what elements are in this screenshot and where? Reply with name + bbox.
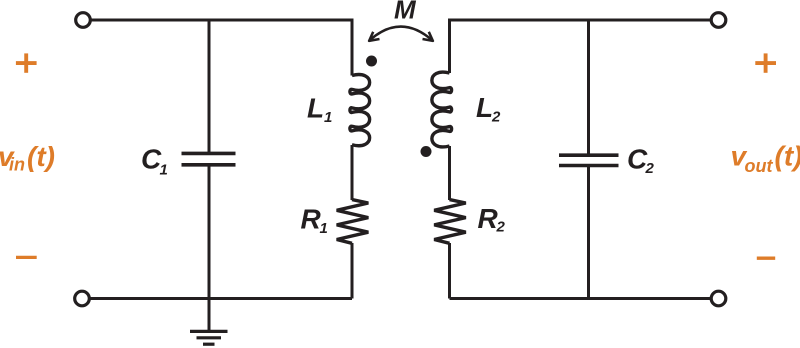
inductor L2 <box>432 72 452 147</box>
terminal: input bottom-left <box>75 291 90 306</box>
svg-text:in: in <box>9 154 25 174</box>
phase dot: L2 bottom <box>421 146 432 157</box>
svg-text:2: 2 <box>491 109 501 126</box>
label: v_out(t) <box>731 140 800 176</box>
terminal: output top-right <box>711 13 726 28</box>
wire: bottom-left rail <box>90 297 353 300</box>
phase dot: L1 top <box>366 56 377 67</box>
ground <box>190 331 228 344</box>
capacitor C2 <box>559 155 619 165</box>
svg-text:1: 1 <box>160 162 168 179</box>
wire: bottom-right rail <box>450 297 712 300</box>
wire: top-left rail from input terminal to L1 branch <box>91 20 353 76</box>
label L1 <box>307 93 332 126</box>
label R2 <box>478 203 506 236</box>
wire: C2 bottom branch <box>587 166 590 299</box>
svg-text:1: 1 <box>324 109 332 126</box>
terminal: output bottom-right <box>711 291 726 306</box>
wire: C2 top branch <box>587 20 590 155</box>
label L2 <box>476 92 501 125</box>
svg-text:1: 1 <box>320 220 328 237</box>
svg-text:R: R <box>478 203 499 234</box>
svg-text:(t): (t) <box>27 141 55 172</box>
inductor L1 <box>350 75 370 146</box>
label: minus sign input <box>16 256 37 259</box>
label: plus sign input <box>16 53 37 72</box>
wire: L2 to R2 connector <box>448 146 451 200</box>
wire: C1 top branch <box>208 20 211 153</box>
label: minus sign output <box>757 257 775 260</box>
label C2 <box>627 144 655 177</box>
resistor R2 <box>434 200 466 244</box>
mutual coupling arrow M <box>369 27 433 41</box>
svg-text:out: out <box>745 156 774 176</box>
svg-text:R: R <box>301 203 322 234</box>
label C1 <box>141 144 168 179</box>
wire: R2 bottom to rail <box>448 243 451 299</box>
svg-text:(t): (t) <box>775 141 800 172</box>
wire: R1 bottom to rail <box>351 243 354 299</box>
wire: top-right rail from L2 branch to output terminal <box>450 20 712 73</box>
capacitor C1 <box>182 153 236 164</box>
label R1 <box>301 203 328 237</box>
svg-text:M: M <box>394 0 417 25</box>
svg-text:2: 2 <box>496 219 506 236</box>
label: v_in(t) <box>0 141 55 174</box>
wire: C1 bottom branch to ground <box>208 165 211 331</box>
resistor R1 <box>337 200 369 244</box>
terminal: input top-left <box>76 13 91 28</box>
svg-text:L: L <box>307 93 324 124</box>
svg-text:L: L <box>476 92 493 123</box>
label M <box>394 0 417 25</box>
wire: L1 to R1 connector <box>351 145 354 200</box>
label: plus sign output <box>755 53 776 72</box>
svg-text:2: 2 <box>645 160 655 177</box>
